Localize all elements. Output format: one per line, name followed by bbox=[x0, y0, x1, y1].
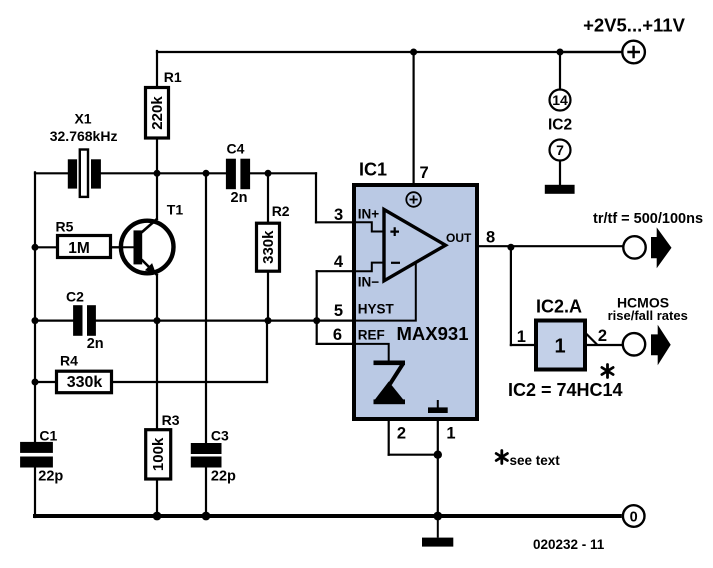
bandgap reference triangle bbox=[374, 382, 404, 401]
svg-text:+2V5...+11V: +2V5...+11V bbox=[583, 15, 686, 36]
wire HYST internal bbox=[354, 263, 416, 321]
wire OUT row bbox=[446, 245, 623, 247]
wire IN+ internal bbox=[354, 222, 384, 231]
ground bus bbox=[33, 514, 622, 518]
svg-text:IC1: IC1 bbox=[359, 159, 387, 179]
svg-text:22p: 22p bbox=[211, 469, 236, 485]
resistor R1 bbox=[146, 88, 169, 139]
transistor T1 circle bbox=[121, 221, 174, 274]
svg-text:7: 7 bbox=[556, 142, 564, 158]
svg-text:220k: 220k bbox=[149, 96, 166, 130]
resistor R2 bbox=[257, 223, 280, 271]
svg-text:2n: 2n bbox=[87, 336, 104, 352]
IC2 supply ground bar bbox=[545, 185, 575, 194]
wire R4 right bbox=[112, 381, 267, 383]
wire supply to plus terminal bbox=[560, 51, 622, 53]
svg-text:R2: R2 bbox=[272, 203, 290, 219]
bandgap reference D1 top bar bbox=[374, 361, 406, 366]
transistor T1 collector diagonal bbox=[142, 219, 158, 233]
svg-text:020232 - 11: 020232 - 11 bbox=[533, 537, 605, 552]
supply plus circle symbol bbox=[406, 192, 421, 207]
wire IC1 pin 7 bbox=[413, 52, 415, 184]
ground symbol bar bbox=[422, 538, 453, 547]
svg-text:1: 1 bbox=[446, 425, 455, 443]
svg-text:14: 14 bbox=[552, 92, 568, 108]
svg-text:3: 3 bbox=[334, 206, 343, 224]
zero terminal bbox=[623, 505, 645, 527]
wire IN- internal bbox=[354, 263, 384, 272]
wire R1 top bbox=[156, 51, 158, 87]
wire R4 up to C2 row bbox=[266, 321, 268, 382]
svg-text:see text: see text bbox=[510, 453, 561, 468]
bandgap reference diagonal bbox=[390, 364, 403, 384]
svg-text:2n: 2n bbox=[231, 190, 248, 206]
crystal X1 left plate bbox=[68, 159, 77, 188]
wire emitter down to R3 bbox=[156, 275, 158, 429]
svg-text:1: 1 bbox=[517, 328, 526, 346]
svg-text:6: 6 bbox=[333, 326, 342, 344]
svg-text:R5: R5 bbox=[56, 218, 74, 234]
svg-text:4: 4 bbox=[334, 253, 344, 271]
arrow top output bbox=[651, 227, 672, 268]
svg-text:C2: C2 bbox=[66, 288, 84, 304]
wire collector up bbox=[156, 173, 158, 219]
bandgap reference bottom bar bbox=[374, 399, 406, 404]
resistor R4 bbox=[57, 371, 112, 393]
svg-text:R3: R3 bbox=[162, 412, 180, 428]
transistor T1 base bar bbox=[134, 230, 143, 264]
svg-text:rise/fall rates: rise/fall rates bbox=[608, 308, 688, 323]
svg-text:1M: 1M bbox=[68, 240, 90, 257]
wire IC1 pin2 down bbox=[388, 404, 390, 455]
wire stub down to pin 6 bbox=[316, 321, 318, 344]
IC1 internal ground bar bbox=[428, 407, 448, 413]
wire R3 to bus bbox=[156, 480, 158, 517]
transistor T1 emitter diagonal bbox=[142, 260, 158, 276]
wire IC2 pin7 to ground bbox=[559, 161, 561, 185]
svg-text:R4: R4 bbox=[60, 352, 78, 368]
resistor R3 bbox=[146, 430, 171, 479]
svg-text:IC2.A: IC2.A bbox=[536, 297, 582, 317]
wire R5 left bbox=[35, 246, 57, 248]
svg-text:8: 8 bbox=[486, 229, 495, 247]
svg-text:0: 0 bbox=[630, 510, 638, 526]
output terminal tr/tf bbox=[623, 236, 645, 258]
wire C2 row right to pin 5 bbox=[96, 320, 353, 322]
svg-text:HYST: HYST bbox=[358, 302, 395, 317]
wire left rail lower bbox=[34, 468, 36, 518]
svg-text:IC2: IC2 bbox=[548, 117, 572, 134]
asterisk near pin 2 bbox=[602, 365, 613, 378]
capacitor C2 plates bbox=[73, 305, 82, 336]
wire R2 bottom drop bbox=[267, 272, 269, 321]
svg-text:C4: C4 bbox=[227, 140, 245, 156]
wire C3 vertical upper bbox=[205, 173, 207, 443]
capacitor C4 plates bbox=[226, 159, 236, 190]
svg-text:100k: 100k bbox=[150, 437, 167, 471]
svg-text:X1: X1 bbox=[74, 110, 91, 126]
svg-text:IC2 = 74HC14: IC2 = 74HC14 bbox=[508, 380, 623, 400]
crystal X1 right plate bbox=[91, 159, 101, 188]
plus input mark bbox=[390, 227, 399, 236]
svg-text:5: 5 bbox=[334, 302, 343, 320]
wire into pin 6 bbox=[317, 343, 353, 345]
wire R5 to base bbox=[111, 246, 134, 248]
wire C4 to bend bbox=[250, 172, 316, 174]
wire crystal row left bbox=[35, 172, 68, 174]
svg-text:330k: 330k bbox=[67, 374, 103, 391]
svg-text:330k: 330k bbox=[260, 230, 277, 264]
svg-text:C3: C3 bbox=[211, 427, 229, 443]
gate IC2.A inverter wedge bbox=[585, 333, 598, 346]
wire C2 row left bbox=[35, 320, 73, 322]
gate IC2.A body bbox=[536, 321, 585, 370]
wire REF internal bbox=[354, 344, 389, 361]
svg-text:32.768kHz: 32.768kHz bbox=[50, 128, 118, 144]
svg-text:MAX931: MAX931 bbox=[397, 323, 469, 344]
svg-text:2: 2 bbox=[598, 327, 607, 345]
wire R2 top drop bbox=[267, 173, 269, 222]
wire IC2 supply from rail bbox=[559, 52, 561, 89]
wire left rail upper bbox=[34, 172, 36, 442]
wire R4 left bbox=[35, 381, 56, 383]
wire pin2 to pin1 bbox=[389, 454, 438, 456]
op-amp comparator triangle IC1 bbox=[384, 210, 446, 281]
resistor R5 bbox=[58, 236, 111, 258]
svg-text:2: 2 bbox=[397, 425, 406, 443]
crystal X1 body bbox=[80, 150, 88, 197]
IC2 pin 14 circle bbox=[550, 90, 571, 111]
svg-text:OUT: OUT bbox=[446, 231, 472, 245]
svg-text:IN−: IN− bbox=[358, 274, 380, 289]
svg-text:tr/tf = 500/100ns: tr/tf = 500/100ns bbox=[593, 211, 703, 227]
IC1 internal ground stem bbox=[437, 400, 439, 408]
wire top supply rail bbox=[157, 51, 622, 53]
wire into gate pin 1 bbox=[511, 344, 535, 346]
asterisk see text bbox=[496, 451, 507, 464]
IC2 pin 7 circle bbox=[550, 140, 571, 161]
svg-text:22p: 22p bbox=[38, 469, 63, 485]
svg-text:1: 1 bbox=[554, 336, 565, 358]
plus supply terminal bbox=[622, 41, 645, 64]
wire crystal to C4 bbox=[101, 172, 226, 174]
wire gate output to terminal bbox=[586, 344, 622, 346]
wire OUT down to gate bbox=[510, 247, 512, 345]
wire bend down to pin3 row bbox=[315, 173, 317, 222]
wire into pin 3 bbox=[316, 221, 353, 223]
IC1 MAX931 body bbox=[354, 185, 477, 419]
svg-text:IN+: IN+ bbox=[358, 206, 380, 221]
wire pin 4 vertical bbox=[316, 271, 318, 320]
transistor T1 emitter arrowhead bbox=[145, 263, 156, 274]
arrow bottom output bbox=[651, 325, 671, 366]
svg-text:7: 7 bbox=[420, 164, 429, 182]
ground symbol stem below bus bbox=[437, 516, 439, 538]
wire IC1 pin1 to bus bbox=[437, 413, 439, 516]
svg-text:T1: T1 bbox=[167, 202, 184, 218]
svg-text:C1: C1 bbox=[39, 427, 57, 443]
capacitor C1 plates bbox=[20, 442, 53, 453]
wire C3 to bus bbox=[205, 468, 207, 517]
minus input mark bbox=[391, 262, 400, 264]
capacitor C3 plates bbox=[191, 443, 222, 454]
svg-text:REF: REF bbox=[358, 328, 385, 343]
output terminal HCMOS bbox=[623, 333, 645, 355]
svg-text:R1: R1 bbox=[164, 69, 182, 85]
wire R1 bottom to crystal row bbox=[156, 139, 158, 174]
wire pin 4 horizontal bbox=[317, 270, 353, 272]
wire base into circle bbox=[111, 246, 134, 248]
